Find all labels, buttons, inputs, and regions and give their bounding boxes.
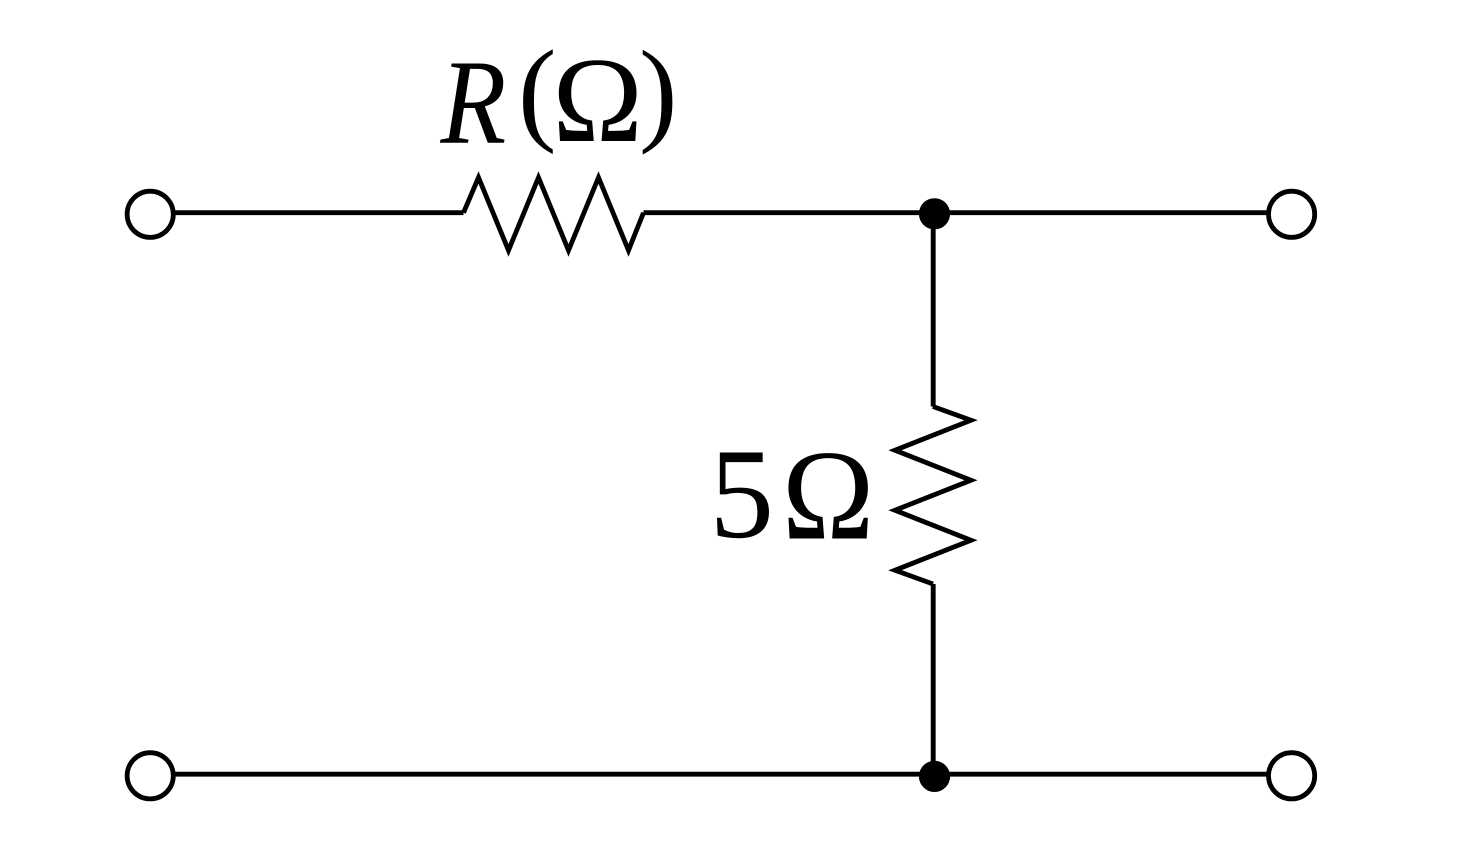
- wire (top-left horizontal, terminal to resistor R): [174, 210, 464, 215]
- svg-text:): ): [639, 27, 677, 155]
- terminal T1 (top-left open circle): [127, 191, 173, 237]
- svg-text:5: 5: [710, 422, 775, 565]
- terminal T4 (bottom-right open circle): [1269, 753, 1315, 799]
- svg-text:Ω: Ω: [553, 34, 643, 168]
- wire (top-right horizontal, node A to terminal T2): [933, 210, 1268, 215]
- wire (vertical, resistor 5Ω down to node B): [931, 584, 936, 776]
- node B (bottom junction dot): [919, 761, 950, 792]
- resistor 5Ω (vertical zigzag): [895, 407, 971, 585]
- wire (top horizontal, resistor R to node A): [644, 210, 934, 215]
- wire (bottom horizontal, terminal T3 to terminal T4 through node B): [174, 772, 1269, 777]
- svg-text:(: (: [518, 27, 556, 155]
- terminal T2 (top-right open circle): [1269, 191, 1315, 237]
- terminal T3 (bottom-left open circle): [127, 753, 173, 799]
- svg-text:R: R: [440, 35, 507, 169]
- wire (vertical, node A down to resistor 5Ω): [931, 213, 936, 407]
- node A (top junction dot): [919, 198, 950, 229]
- resistor R (horizontal zigzag): [464, 178, 644, 251]
- svg-text:Ω: Ω: [782, 424, 874, 567]
